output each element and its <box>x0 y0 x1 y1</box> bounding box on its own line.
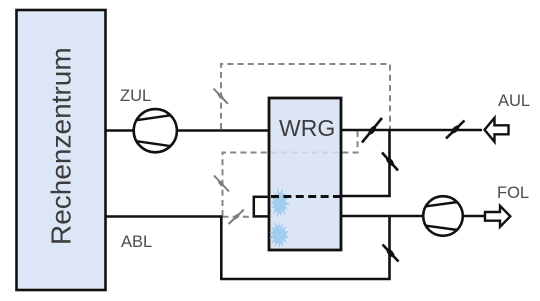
svg-text:Rechenzentrum: Rechenzentrum <box>46 47 77 245</box>
wire ABL + exhaust bottom <box>106 216 390 279</box>
wire FOL <box>341 215 484 218</box>
arrow FOL (points right) <box>485 206 510 227</box>
wire WRG return upper <box>341 130 390 196</box>
fan exhaust FOL <box>423 196 463 236</box>
svg-text:ZUL: ZUL <box>120 87 151 105</box>
separator dashed (WRG wet section) <box>271 195 341 198</box>
wire ZUL <box>106 129 270 132</box>
spray feed dashed wire (gray) <box>223 216 253 218</box>
wire AUL <box>341 129 482 132</box>
spray nozzle 2 <box>269 222 289 250</box>
bypass dashed lower <box>223 131 358 216</box>
spray chamber stub <box>254 197 269 217</box>
svg-text:AUL: AUL <box>498 92 530 110</box>
damper return upper <box>382 153 398 171</box>
damper bypass lower (gray) <box>214 176 229 192</box>
WRG box <box>269 98 341 250</box>
Rechenzentrum box <box>17 10 106 290</box>
damper spray feed (gray) <box>229 209 245 224</box>
svg-text:FOL: FOL <box>497 184 529 202</box>
damper exhaust lower <box>383 245 399 262</box>
fan supply ZUL <box>134 109 177 152</box>
damper AUL outer <box>446 121 465 139</box>
spray nozzle 1 <box>270 187 291 218</box>
damper AUL inner <box>362 118 382 143</box>
arrow AUL (points left) <box>485 118 509 142</box>
damper bypass upper (gray) <box>214 89 229 105</box>
svg-text:ABL: ABL <box>121 233 152 251</box>
bypass dashed upper <box>221 64 390 129</box>
svg-text:WRG: WRG <box>279 115 335 141</box>
